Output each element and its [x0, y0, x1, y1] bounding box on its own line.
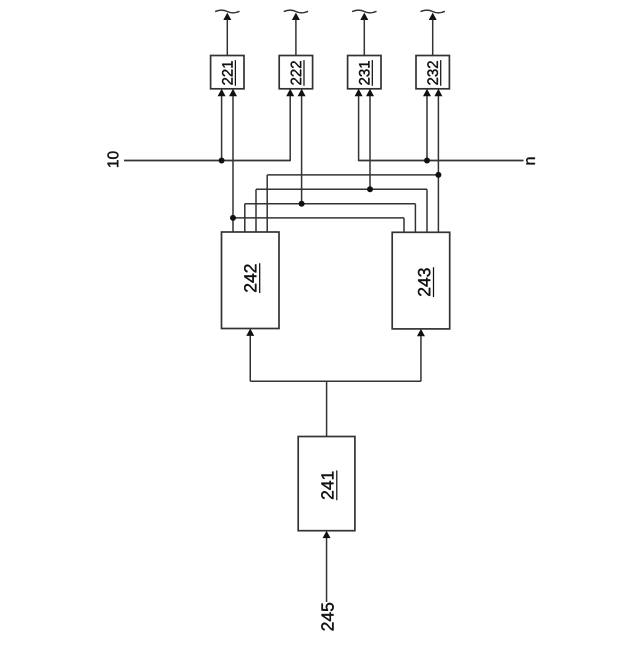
junction dot net n / 232 input	[424, 158, 430, 164]
arrow into block 242 bottom	[246, 329, 254, 336]
wire: net from 242/243 to block 231 right input	[256, 96, 427, 232]
junction dot on 222 right input line	[299, 201, 305, 207]
amplifier block 231	[348, 56, 381, 89]
antenna for block 222	[284, 10, 308, 55]
antenna for block 221	[215, 10, 239, 55]
processing block 241	[298, 437, 355, 531]
arrow into block 241 bottom	[323, 531, 331, 538]
amplifier block 232	[416, 56, 449, 89]
antenna for block 232	[421, 10, 445, 55]
wire: 241 output split to 242 and 243	[250, 336, 421, 437]
wire: net from 242/243 to block 222 right input	[245, 96, 416, 232]
label 245	[321, 603, 333, 631]
junction dot net 10 / 221 input	[219, 158, 225, 164]
processing block 243	[392, 232, 450, 329]
junction dot on 231 right input line	[367, 186, 373, 192]
processing block 242	[222, 232, 280, 329]
wire: block 221 left input from net 10	[221, 96, 223, 161]
wire: net from 242/243 to block 221 right input	[233, 96, 404, 232]
junction dot on 232 right input line	[435, 172, 441, 178]
amplifier block 221	[211, 56, 244, 89]
label n	[526, 158, 535, 165]
wire: net from 242/243 to block 232 right input	[267, 96, 438, 232]
input arrows into block 231	[355, 89, 374, 96]
arrow into block 243 bottom	[417, 329, 425, 336]
input arrows into block 222	[286, 89, 305, 96]
label 10	[107, 152, 118, 167]
amplifier block 222	[279, 56, 312, 89]
antenna for block 231	[352, 10, 376, 55]
input arrows into block 232	[423, 89, 442, 96]
wire: net n horizontal bus	[359, 96, 524, 161]
wire: net 10 horizontal bus	[124, 96, 290, 161]
wire: input 245 into block 241	[326, 538, 328, 602]
input arrows into block 221	[218, 89, 237, 96]
wire: block 232 left input from net n	[426, 96, 428, 161]
junction dot on 221 right input line	[230, 215, 236, 221]
